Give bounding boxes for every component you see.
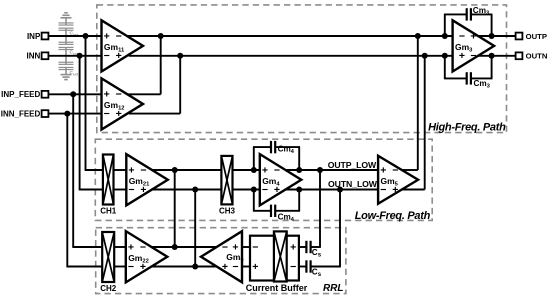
- current buffer box: [250, 236, 299, 281]
- wire OUTN main line: [129, 55, 516, 57]
- wire INN down to CH1: [79, 56, 81, 190]
- chopper (inside current buffer): [274, 231, 287, 281]
- svg-text:CH2: CH2: [100, 284, 117, 293]
- svg-text:High-Freq. Path: High-Freq. Path: [428, 121, 506, 133]
- svg-text:+: +: [128, 241, 134, 253]
- wire Gm5 lower output up to OUTN line: [401, 189, 425, 191]
- svg-text:INP_FEED: INP_FEED: [1, 90, 40, 99]
- wire INN_FEED to Gm12: [48, 113, 101, 115]
- junction: [489, 53, 495, 59]
- wire Gm12 lower output to OUTN line: [129, 113, 180, 115]
- terminal INN: [42, 52, 49, 59]
- svg-text:Current Buffer: Current Buffer: [246, 283, 308, 293]
- op-amp Gm21: [126, 154, 168, 205]
- wire Cext3 to ground: [65, 68, 67, 75]
- junction: [251, 167, 257, 173]
- svg-text:OUTN: OUTN: [526, 52, 548, 61]
- capacitor Cext2: [65, 36, 67, 44]
- junction: [172, 167, 178, 173]
- junction: [251, 187, 257, 193]
- svg-text:−: −: [140, 164, 146, 176]
- wire Gm21 lower output down to Gm22 output: [194, 190, 196, 267]
- svg-text:+: +: [262, 164, 268, 176]
- svg-text:INN_FEED: INN_FEED: [1, 109, 41, 118]
- svg-text:−: −: [232, 261, 238, 273]
- wire OUTN_LOW (Gm4 to Gm5): [285, 189, 379, 191]
- wire Gm6 to current buffer: [242, 246, 250, 248]
- svg-text:OUTP: OUTP: [526, 32, 547, 41]
- op-amp Gm12: [102, 78, 144, 129]
- op-amp Gm4: [260, 154, 302, 205]
- svg-text:OUTP_LOW: OUTP_LOW: [328, 160, 377, 170]
- svg-text:+: +: [290, 241, 296, 253]
- wire Gm12 upper output to OUTP line: [127, 93, 160, 95]
- wire OUTP_LOW (Gm4 to Gm5): [285, 169, 378, 171]
- svg-text:−: −: [274, 164, 280, 176]
- svg-text:Low-Freq. Path: Low-Freq. Path: [355, 210, 431, 222]
- svg-text:−: −: [290, 261, 296, 273]
- ground (bottom, input cap chain): [61, 74, 72, 76]
- ground (top, input cap chain): [61, 17, 72, 19]
- wire Cext1 to INP line: [65, 29, 67, 36]
- svg-text:+: +: [252, 261, 258, 273]
- svg-text:CH1: CH1: [100, 207, 117, 216]
- junction: [70, 91, 76, 97]
- svg-text:+: +: [104, 31, 110, 43]
- junction: [296, 187, 302, 193]
- svg-text:+: +: [470, 31, 476, 43]
- terminal INN_FEED: [42, 110, 49, 117]
- op-amp Gm11: [102, 20, 144, 71]
- junction: [317, 167, 323, 173]
- svg-text:CH3: CH3: [219, 207, 236, 216]
- svg-text:−: −: [116, 89, 122, 101]
- wire Gm21 upper output to CH3: [152, 169, 221, 171]
- High-Freq. Path dashed box: [97, 5, 507, 133]
- wire Gm5 upper output up to OUTP line: [402, 169, 418, 171]
- terminal OUTP: [516, 33, 523, 40]
- svg-text:OUTN_LOW: OUTN_LOW: [328, 179, 378, 189]
- wire INP_FEED down to CH2: [72, 94, 74, 247]
- junction: [177, 53, 183, 59]
- svg-text:+: +: [104, 89, 110, 101]
- terminal INP: [42, 33, 49, 40]
- capacitor Cm3 (top): [444, 14, 446, 36]
- svg-text:INP: INP: [27, 32, 41, 41]
- svg-text:−: −: [252, 241, 258, 253]
- terminal INP_FEED: [42, 91, 49, 98]
- wire OUTP main line (Gm11/Gm12 output to Gm3): [127, 35, 515, 37]
- svg-text:−: −: [140, 241, 146, 253]
- chopper CH3: [221, 156, 232, 205]
- junction: [442, 33, 448, 39]
- capacitor Cext3: [65, 56, 67, 64]
- wire INN to Gm11: [48, 55, 101, 57]
- wire Gm21 upper output down to Gm22 output: [174, 170, 176, 247]
- wire INP_FEED to Gm12: [48, 93, 101, 95]
- svg-text:+: +: [380, 164, 386, 176]
- chopper CH2: [102, 232, 114, 282]
- svg-text:−: −: [459, 31, 465, 43]
- wire CH2 to Gm22: [114, 246, 126, 248]
- op-amp Gm3: [453, 20, 495, 71]
- junction: [489, 33, 495, 39]
- capacitor Cext1: [59, 22, 74, 24]
- svg-text:RRL: RRL: [323, 283, 344, 294]
- junction: [192, 264, 198, 270]
- RRL dashed box: [96, 228, 346, 294]
- capacitor Cs (bottom): [299, 266, 307, 268]
- capacitor Cm3 (bottom): [444, 56, 446, 79]
- wire INN_FEED down to CH2: [66, 114, 68, 267]
- op-amp Gm6 (left-pointing): [201, 231, 242, 282]
- wire Cext2 to INN line: [65, 48, 67, 56]
- wire Gm22 lower output to Gm6: [151, 266, 218, 268]
- capacitor Cm4 (top): [253, 147, 255, 170]
- chopper CH1: [103, 155, 114, 205]
- capacitor Cs (top): [299, 246, 307, 248]
- junction: [415, 33, 421, 39]
- wire Gm21 lower output to CH3: [151, 189, 221, 191]
- Low-Freq. Path dashed box: [95, 139, 432, 220]
- junction: [83, 33, 89, 39]
- svg-text:−: −: [392, 164, 398, 176]
- junction: [158, 33, 164, 39]
- svg-text:+: +: [128, 164, 134, 176]
- junction: [192, 187, 198, 193]
- svg-text:INN: INN: [27, 52, 41, 61]
- junction: [422, 53, 428, 59]
- wire CH1 to Gm21: [114, 169, 127, 171]
- junction: [442, 53, 448, 59]
- capacitor Cm4 (bottom): [253, 190, 255, 211]
- junction: [337, 187, 343, 193]
- wire Gm22 upper output to Gm6: [152, 246, 218, 248]
- junction: [172, 244, 178, 250]
- op-amp Gm22: [126, 231, 168, 282]
- wire CH3 to Gm4: [233, 169, 260, 171]
- svg-text:−: −: [116, 31, 122, 43]
- op-amp Gm5: [378, 156, 418, 204]
- junction: [64, 111, 70, 117]
- junction: [77, 53, 83, 59]
- terminal OUTN: [516, 52, 523, 59]
- wire gnd to Cext1: [65, 18, 67, 25]
- wire INP to Gm11: [48, 35, 101, 37]
- svg-text:+: +: [222, 261, 228, 273]
- wire INP down to CH1: [85, 36, 87, 170]
- junction: [296, 167, 302, 173]
